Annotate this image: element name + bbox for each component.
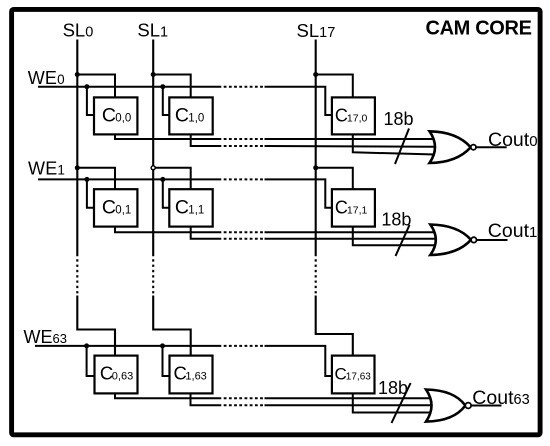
cell C0,63	[95, 356, 138, 394]
wire WE1 to C0,1	[87, 179, 95, 207]
junction WE1/SL1 branch	[160, 177, 165, 182]
bus slash row63	[392, 383, 411, 423]
wire SL0 vertical	[77, 40, 115, 357]
junction SL1 row1 open	[151, 166, 155, 170]
svg-text:CAM CORE: CAM CORE	[426, 17, 532, 39]
junction SL17 row0	[313, 72, 318, 77]
svg-text:1,0: 1,0	[188, 113, 204, 125]
svg-text:1,1: 1,1	[188, 204, 204, 216]
wire WE1	[38, 179, 333, 207]
wire match line ML63b from C1,63	[191, 393, 433, 405]
cell C1,0	[169, 97, 212, 134]
svg-text:1,63: 1,63	[185, 371, 206, 383]
svg-text:Cout0: Cout0	[488, 129, 538, 151]
wire Cout1 output	[477, 239, 508, 241]
NOR gate U1	[430, 225, 476, 256]
junction WE63/SL1 branch	[160, 343, 165, 348]
cell C0,0	[94, 97, 137, 134]
NOR gate U63	[426, 390, 471, 422]
wire match line ML0b from C1,0	[191, 134, 435, 146]
svg-text:C: C	[175, 196, 189, 218]
wire Cout0 output	[476, 146, 507, 148]
wire Cout63 output	[471, 405, 501, 407]
wire SL1 bracket row0	[153, 75, 191, 98]
svg-text:C: C	[102, 196, 116, 218]
wire WE1 to C1,1	[163, 179, 171, 207]
wire WE63 to C0,63	[87, 346, 95, 376]
junction SL0 row0	[75, 72, 80, 77]
wire match line ML1c from C17,1	[353, 227, 436, 246]
bus slash row0	[395, 129, 409, 165]
junction SL17 row1	[313, 165, 318, 170]
junction WE63/SL0 branch	[84, 343, 89, 348]
svg-text:0,0: 0,0	[115, 113, 131, 125]
cell C0,1	[94, 189, 137, 226]
svg-text:18b: 18b	[378, 378, 408, 398]
cell C17,0	[332, 97, 375, 134]
svg-text:0,63: 0,63	[112, 371, 133, 383]
svg-text:C: C	[175, 105, 189, 127]
wire match line ML1b from C1,1	[191, 227, 436, 239]
wire match line ML63a from C0,63	[115, 393, 432, 398]
wire match line ML63c from C17,63	[353, 393, 432, 412]
svg-text:18b: 18b	[384, 109, 414, 129]
wire SL0 bracket row0	[77, 75, 115, 98]
wire SL17 vertical	[316, 40, 353, 357]
wire WE63 to C1,63	[163, 346, 171, 376]
wire WE0 to C0,0	[87, 87, 95, 115]
svg-text:17,63: 17,63	[346, 372, 371, 383]
wire SL17 bracket row1	[316, 168, 353, 189]
cell C17,63	[332, 356, 375, 394]
svg-text:17,0: 17,0	[347, 113, 368, 125]
svg-text:17,1: 17,1	[347, 204, 368, 216]
wire match line ML1a from C0,1	[115, 227, 436, 233]
junction WE1/SL0 branch	[84, 177, 89, 182]
svg-text:0,1: 0,1	[115, 204, 131, 216]
wire WE63	[35, 346, 333, 376]
wire WE0	[38, 87, 333, 115]
wire match line ML0a from C0,0	[115, 134, 435, 139]
bus slash row1	[396, 225, 410, 256]
wire WE0 to C1,0	[163, 87, 171, 115]
wire SL17 bracket row0	[316, 75, 353, 98]
svg-text:Cout1: Cout1	[488, 220, 538, 242]
wire SL1 bracket row1	[153, 168, 191, 189]
cell C1,63	[170, 356, 213, 394]
junction WE0/SL0 branch	[84, 84, 89, 89]
wire match line ML0c from C17,0	[353, 134, 435, 154]
NOR gate U0	[430, 131, 477, 163]
cell C17,1	[332, 189, 375, 226]
junction WE0/SL1 branch	[160, 84, 165, 89]
cell C1,1	[169, 189, 212, 226]
svg-text:C: C	[102, 105, 116, 127]
wire SL0 bracket row1	[77, 168, 115, 189]
junction SL0 row1	[75, 165, 80, 170]
svg-text:18b: 18b	[381, 210, 411, 230]
wire SL1 vertical	[153, 40, 191, 357]
junction SL1 row0	[151, 72, 156, 77]
